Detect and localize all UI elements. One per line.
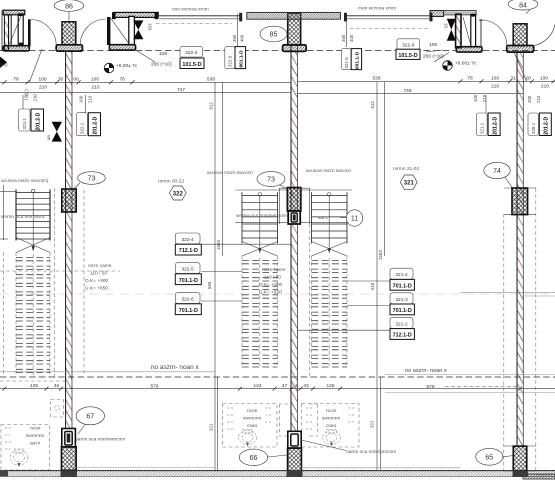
svg-text:78: 78 bbox=[119, 77, 125, 83]
svg-text:86: 86 bbox=[65, 3, 73, 10]
svg-text:wnrnn oca nnm/wrncnm: wnrnn oca nnm/wrncnm bbox=[236, 213, 287, 219]
svg-text:200 (+10): 200 (+10) bbox=[151, 62, 172, 68]
label box 321-4 / 701.1-D bbox=[347, 268, 414, 290]
svg-text:748: 748 bbox=[403, 88, 411, 94]
svg-text:non wcrnoa xrnm: non wcrnoa xrnm bbox=[172, 7, 209, 13]
wall: top-right corner hatched bar bbox=[430, 11, 444, 17]
svg-text:210: 210 bbox=[491, 83, 499, 89]
svg-text:31: 31 bbox=[510, 76, 516, 82]
svg-text:200 (+10): 200 (+10) bbox=[423, 54, 444, 60]
svg-text:108: 108 bbox=[429, 42, 437, 48]
svg-text:539: 539 bbox=[372, 76, 380, 82]
svg-text:swrnnrm: swrnnrm bbox=[26, 433, 44, 439]
svg-text:323-1: 323-1 bbox=[22, 118, 27, 130]
svg-text:124: 124 bbox=[253, 383, 261, 389]
dimension: vertical rail dim right (360/400) bbox=[341, 14, 354, 47]
svg-text:67: 67 bbox=[86, 414, 94, 421]
svg-text:201.2-D: 201.2-D bbox=[93, 116, 99, 134]
svg-text:108: 108 bbox=[159, 51, 167, 57]
svg-text:100: 100 bbox=[491, 76, 499, 82]
svg-text:ncon: ncon bbox=[30, 427, 41, 432]
svg-text:nnzn camn: nnzn camn bbox=[88, 264, 112, 269]
svg-text:66: 66 bbox=[250, 455, 258, 462]
svg-text:321: 321 bbox=[209, 423, 214, 431]
svg-text:712.1-D: 712.1-D bbox=[179, 248, 198, 254]
level mark +6.00 right bbox=[443, 61, 477, 71]
wire: bottom interior lines bbox=[70, 467, 460, 469]
svg-text:15: 15 bbox=[444, 23, 449, 28]
svg-text:+6.00± 7c: +6.00± 7c bbox=[116, 63, 138, 69]
sanitary prep area mid-left bbox=[223, 404, 278, 448]
wire: light dashed guide y271 bbox=[0, 270, 120, 272]
svg-text:an: an bbox=[46, 135, 51, 140]
svg-text:100: 100 bbox=[79, 95, 84, 103]
label box pair 320-1/201.2-D bbox=[528, 113, 551, 136]
callout bubble 67 bbox=[76, 407, 104, 434]
svg-text:712.1-D: 712.1-D bbox=[393, 333, 412, 339]
svg-text:46: 46 bbox=[54, 383, 60, 389]
label box 321-2 / 712.1-D bbox=[297, 317, 414, 339]
svg-text:nnzn camn: nnzn camn bbox=[262, 268, 286, 273]
dimension row top-right y82 bbox=[297, 76, 555, 103]
column C3 top-right pillar bbox=[507, 24, 534, 52]
door: center wall bottom door symbol bbox=[288, 431, 301, 448]
column C2 top-center pillar bbox=[283, 13, 307, 51]
wire: top threshold dashed line bbox=[0, 50, 555, 52]
svg-text:322-3: 322-3 bbox=[228, 55, 233, 67]
svg-text:538: 538 bbox=[207, 77, 215, 83]
label: 108 / 200 (+10) left bbox=[30, 49, 173, 82]
svg-text:126: 126 bbox=[326, 383, 334, 389]
svg-text:78: 78 bbox=[467, 76, 473, 82]
svg-text:321: 321 bbox=[370, 420, 375, 428]
svg-text:210: 210 bbox=[541, 83, 549, 89]
svg-text:201.2-D: 201.2-D bbox=[544, 117, 550, 135]
svg-text:101.5-D: 101.5-D bbox=[398, 53, 417, 59]
svg-text:11: 11 bbox=[351, 216, 358, 223]
wire: top rail left segment bbox=[159, 13, 242, 22]
svg-text:78: 78 bbox=[13, 77, 19, 83]
door D4 arc right clipped bbox=[534, 24, 555, 45]
svg-text:no aszrn- noan x: no aszrn- noan x bbox=[405, 368, 447, 374]
svg-text:322: 322 bbox=[173, 191, 184, 197]
column C1 top-left pillar bbox=[56, 22, 82, 51]
callout bubble 73 middle bbox=[257, 172, 287, 189]
node: dashed guide x54.5 bbox=[54, 188, 56, 378]
svg-text:701.1-D: 701.1-D bbox=[393, 283, 412, 289]
callout bubble 73 left bbox=[73, 172, 105, 190]
svg-text:616: 616 bbox=[370, 282, 375, 290]
room outline right column bbox=[504, 188, 536, 215]
svg-text:100: 100 bbox=[527, 95, 532, 103]
label: concrete beam note left bbox=[85, 264, 112, 292]
svg-text:65: 65 bbox=[485, 455, 493, 462]
floor slab bottom band bbox=[0, 471, 555, 479]
svg-text:210: 210 bbox=[536, 95, 541, 103]
svg-text:322-5: 322-5 bbox=[181, 267, 194, 273]
valve-symbol black bowtie top right bbox=[447, 19, 456, 41]
svg-text:100: 100 bbox=[540, 76, 548, 82]
node: left construction grid line x222 bbox=[222, 82, 224, 256]
svg-text:00: 00 bbox=[73, 77, 79, 83]
label box 322-4 / 712.1-D bbox=[175, 233, 291, 255]
column C4 mid-left wall pillar bbox=[62, 189, 76, 212]
column C6 mid-right wall pillar bbox=[512, 188, 528, 215]
svg-text:4: 4 bbox=[295, 383, 298, 389]
svg-text:110 / 50: 110 / 50 bbox=[90, 271, 107, 277]
wire: top rail right segment bbox=[344, 13, 433, 22]
svg-text:360: 360 bbox=[232, 34, 237, 42]
svg-text:321-2: 321-2 bbox=[395, 321, 408, 327]
svg-text:321-6: 321-6 bbox=[402, 42, 415, 48]
wall W2 central vertical wall bbox=[291, 45, 297, 432]
label: unit 322 hexagon bbox=[158, 179, 186, 201]
column C9 right wall bottom pillar bbox=[513, 446, 526, 471]
wire: right gray line bbox=[385, 392, 555, 394]
dimension row bottom y388.6 bbox=[0, 383, 555, 391]
svg-text:aa'm: aa'm bbox=[30, 441, 40, 447]
svg-text:1569: 1569 bbox=[378, 250, 383, 260]
svg-text:601.1-D: 601.1-D bbox=[239, 50, 245, 68]
svg-text:O.K= +900: O.K= +900 bbox=[85, 278, 109, 284]
svg-text:wnrnn oca nnm/wrnc: wnrnn oca nnm/wrnc bbox=[1, 214, 46, 220]
callout bubble 66 bbox=[239, 449, 287, 465]
svg-text:321-3: 321-3 bbox=[395, 297, 408, 303]
column C5 mid-center pillar bbox=[287, 188, 301, 212]
label box 321-3 / 701.1-D bbox=[347, 293, 414, 315]
label: unit 321 hexagon bbox=[393, 166, 419, 189]
fixture: dashed recesses beside center wall bbox=[280, 404, 318, 436]
svg-text:swrnnrm: swrnnrm bbox=[322, 416, 340, 422]
svg-text:73: 73 bbox=[267, 177, 275, 184]
fixture: small dashed closet left bbox=[51, 400, 64, 418]
door D2 swing arc (mirror) bbox=[80, 19, 105, 45]
svg-text:rnrmn 00-22: rnrmn 00-22 bbox=[158, 179, 184, 185]
node: right construction grid line x384 bbox=[384, 82, 386, 256]
valve-symbol bowtie on left wall bbox=[46, 122, 62, 142]
svg-text:100: 100 bbox=[91, 77, 99, 83]
stair S1 far-left flight bbox=[0, 189, 50, 377]
wall W1 left vertical wall bbox=[66, 51, 72, 432]
level mark +6.00 left bbox=[104, 63, 138, 73]
valve-symbol black bowtie on frame F2 bbox=[133, 20, 143, 39]
svg-text:328-1: 328-1 bbox=[531, 122, 536, 134]
svg-text:oarnn oca nnm/wrncnm: oarnn oca nnm/wrncnm bbox=[346, 449, 396, 455]
svg-text:73: 73 bbox=[88, 176, 96, 183]
label: concrete beam note middle bbox=[259, 268, 286, 296]
svg-text:210: 210 bbox=[91, 84, 99, 90]
callout bubble 65 bbox=[476, 448, 513, 465]
svg-text:321-4: 321-4 bbox=[395, 272, 408, 278]
node: left stair boundary line x3.5 bbox=[3, 185, 5, 240]
label box 322-5 / 701.1-D bbox=[175, 263, 242, 285]
svg-text:xar'c: xar'c bbox=[318, 215, 329, 221]
callout bubble 74 right bbox=[484, 162, 513, 188]
svg-text:mon wcrnoa xrnm: mon wcrnoa xrnm bbox=[358, 6, 396, 12]
svg-text:74: 74 bbox=[493, 168, 501, 175]
room outline around mid column bbox=[279, 188, 309, 224]
svg-text:20: 20 bbox=[525, 76, 531, 82]
column C7 left wall bottom pillar bbox=[62, 447, 77, 471]
node: left construction grid line x215 bbox=[214, 82, 216, 470]
label box pair 323-1/201.2-D bbox=[19, 95, 44, 131]
svg-text:201.2-D: 201.2-D bbox=[36, 112, 42, 130]
svg-text:400: 400 bbox=[240, 34, 245, 42]
sanitary prep area mid-right bbox=[302, 404, 360, 448]
wire: stair landing lines bbox=[236, 190, 361, 222]
dimension: vertical rail dim left (360/400) bbox=[232, 14, 245, 47]
node: dashed guide x84 bbox=[83, 190, 85, 376]
door frame F3 top-right bbox=[456, 14, 482, 52]
svg-text:84: 84 bbox=[519, 3, 527, 10]
door frame F2 second top frame bbox=[107, 12, 158, 50]
svg-text:no aszrn- noan x: no aszrn- noan x bbox=[151, 364, 199, 371]
callout bubble 86 bbox=[54, 0, 84, 21]
svg-text:322-4: 322-4 bbox=[181, 237, 194, 243]
svg-text:153: 153 bbox=[148, 23, 153, 31]
door frame F1 top-left lift doors bbox=[2, 10, 29, 51]
svg-text:578: 578 bbox=[426, 384, 434, 390]
door: mid-center door section symbol bbox=[288, 211, 300, 224]
label: tsamid text + callout 11 bbox=[318, 210, 363, 226]
sanitary prep area bottom-left bbox=[1, 425, 50, 471]
valve-symbol bowtie left edge bbox=[0, 57, 7, 69]
svg-text:210: 210 bbox=[88, 95, 93, 103]
svg-text:612: 612 bbox=[209, 102, 214, 110]
door D1 jamb and swing arc bbox=[28, 19, 56, 46]
door frame: head-on frame top right bbox=[444, 10, 477, 15]
svg-text:701.1-D: 701.1-D bbox=[179, 308, 198, 314]
svg-text:43: 43 bbox=[303, 383, 309, 389]
svg-text:322-2: 322-2 bbox=[185, 50, 198, 56]
callout bubble 84 bbox=[508, 0, 538, 14]
wire: upper dashed guide bbox=[156, 24, 428, 29]
wire: hidden flight center dashes bbox=[33, 254, 329, 376]
svg-text:rnrmn 21-02: rnrmn 21-02 bbox=[393, 166, 419, 172]
dimension line 747 bbox=[0, 87, 291, 96]
wall W3 right vertical wall bbox=[517, 52, 523, 446]
svg-text:101.5-D: 101.5-D bbox=[182, 62, 201, 68]
svg-text:oarnn oca nnm/wrncnm: oarnn oca nnm/wrncnm bbox=[75, 437, 125, 443]
callout bubble 85 bbox=[260, 26, 287, 42]
svg-text:360: 360 bbox=[341, 34, 346, 42]
label box 322-2 / 101.5-D bbox=[180, 47, 204, 69]
svg-text:400: 400 bbox=[349, 34, 354, 42]
label box 322-3 / 601.1-D vertical bbox=[225, 47, 246, 69]
svg-text:acunoa mszn swcnzn: acunoa mszn swcnzn bbox=[207, 171, 253, 176]
svg-text:csao: csao bbox=[326, 424, 336, 429]
svg-text:ncon: ncon bbox=[247, 409, 258, 414]
svg-text:U.K= +850: U.K= +850 bbox=[259, 290, 282, 296]
svg-text:612: 612 bbox=[370, 101, 375, 109]
column C8 center wall bottom pillar bbox=[288, 448, 302, 471]
svg-text:100: 100 bbox=[38, 77, 46, 83]
node: right construction grid line x377 bbox=[376, 82, 378, 470]
svg-text:100: 100 bbox=[473, 94, 478, 102]
door D3 jamb and arc bbox=[479, 20, 507, 47]
svg-text:swrnnrm: swrnnrm bbox=[243, 416, 261, 422]
node: dashed guides right wall bbox=[503, 214, 505, 471]
label box 322-6 / 701.1-D bbox=[175, 293, 242, 315]
svg-text:1569: 1569 bbox=[216, 240, 221, 250]
wire: gallery dashed line bbox=[0, 376, 555, 378]
svg-text:O.K= +900: O.K= +900 bbox=[259, 282, 283, 288]
svg-text:321-1: 321-1 bbox=[480, 122, 485, 134]
svg-text:322-1: 322-1 bbox=[80, 122, 85, 134]
svg-text:210: 210 bbox=[39, 84, 47, 90]
door: left wall bottom door symbol bbox=[62, 429, 76, 448]
label box 321-6 / 101.5-D bbox=[396, 39, 527, 81]
room outline right bottom bbox=[504, 446, 536, 471]
svg-text:csao: csao bbox=[247, 424, 257, 429]
svg-text:601.1-D: 601.1-D bbox=[355, 51, 361, 69]
svg-text:acunoa mszn swcnzn): acunoa mszn swcnzn) bbox=[1, 178, 49, 184]
label: gypsum closure text mid bbox=[301, 440, 396, 455]
svg-text:701.1-D: 701.1-D bbox=[393, 308, 412, 314]
svg-text:210: 210 bbox=[33, 94, 38, 102]
wire: gallery level line bbox=[0, 372, 555, 375]
svg-text:201.2-D: 201.2-D bbox=[492, 117, 498, 135]
svg-text:+6.00± 7c: +6.00± 7c bbox=[455, 61, 477, 67]
svg-text:acunoa mszn sacncn: acunoa mszn sacncn bbox=[306, 169, 351, 174]
dimension line 748 bbox=[297, 88, 523, 94]
stair S3 mid-right flight bbox=[312, 192, 348, 367]
dimension row top-left y82.3 bbox=[0, 77, 291, 104]
label box pair 321-1/201.2-D bbox=[476, 95, 500, 136]
label box 321-5 / 601.1-D vertical bbox=[342, 49, 362, 70]
svg-text:747: 747 bbox=[177, 87, 185, 93]
svg-text:85: 85 bbox=[270, 32, 278, 39]
svg-text:47: 47 bbox=[282, 383, 288, 389]
svg-text:110 / 50: 110 / 50 bbox=[264, 275, 281, 281]
svg-text:ncon: ncon bbox=[326, 409, 337, 414]
svg-text:U.K= +850: U.K= +850 bbox=[85, 286, 108, 292]
svg-text:321: 321 bbox=[404, 181, 415, 187]
svg-text:322-6: 322-6 bbox=[181, 297, 194, 303]
svg-text:656: 656 bbox=[207, 281, 212, 289]
svg-text:321-5: 321-5 bbox=[344, 57, 349, 69]
svg-text:576: 576 bbox=[150, 383, 158, 389]
wall: top hatched parapet center bbox=[247, 12, 341, 19]
stair S2 mid-left flight bbox=[242, 192, 278, 367]
svg-text:1.0): 1.0) bbox=[0, 62, 8, 67]
wire: mid gray guide line bbox=[0, 293, 555, 295]
svg-text:135: 135 bbox=[30, 383, 38, 389]
svg-text:30: 30 bbox=[58, 77, 64, 83]
svg-text:701.1-D: 701.1-D bbox=[179, 278, 198, 284]
label box pair 322-1/201.2-D bbox=[76, 95, 100, 136]
